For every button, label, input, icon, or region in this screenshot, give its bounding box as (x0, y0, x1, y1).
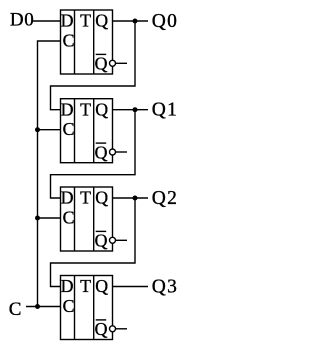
wire U4 Qbar stub (116, 328, 128, 330)
wire U1 Qbar stub (116, 62, 128, 64)
svg-text:Q: Q (95, 142, 108, 162)
wire U2 Qbar stub (116, 151, 128, 153)
wire clock branch to U3 pin C (38, 217, 61, 219)
svg-text:Q: Q (95, 11, 108, 31)
D flip-flop U2 (61, 99, 113, 163)
svg-text:T: T (80, 188, 91, 208)
svg-text:D0: D0 (10, 10, 34, 31)
svg-text:Q1: Q1 (152, 100, 178, 121)
svg-text:Q: Q (95, 188, 108, 208)
inverter bubble on U1 pin Qbar (110, 60, 116, 66)
wire Q0 to U2 pin D (51, 21, 136, 110)
svg-text:D: D (61, 188, 74, 208)
inverter bubble on U4 pin Qbar (110, 326, 116, 332)
svg-text:Q2: Q2 (152, 188, 178, 209)
svg-text:D: D (61, 276, 74, 296)
junction clock at U2 C (35, 127, 40, 132)
svg-text:Q: Q (95, 99, 108, 119)
junction clock at U4 C (35, 304, 40, 309)
wire U1 Q output (113, 20, 149, 22)
inverter bubble on U2 pin Qbar (110, 149, 116, 155)
D flip-flop U1 (61, 10, 113, 74)
wire clock branch to U2 pin C (38, 129, 61, 131)
svg-text:C: C (63, 296, 75, 316)
D flip-flop U3 (61, 187, 113, 251)
inverter bubble on U3 pin Qbar (110, 237, 116, 243)
D flip-flop U4 (61, 276, 113, 340)
svg-text:Q: Q (95, 54, 108, 74)
wire clock vertical bus (38, 41, 61, 307)
svg-text:Q: Q (95, 319, 108, 339)
junction Q1 feedback tap (133, 107, 138, 112)
svg-text:T: T (80, 11, 91, 31)
svg-text:T: T (80, 99, 91, 119)
svg-text:Q: Q (95, 231, 108, 251)
wire C to U4 pin C (26, 306, 61, 308)
svg-text:Q3: Q3 (152, 277, 178, 298)
svg-text:C: C (63, 207, 75, 227)
wire D0 to U1 pin D (32, 20, 61, 22)
wire Q1 to U3 pin D (51, 110, 136, 198)
wire U3 Qbar stub (116, 239, 128, 241)
junction Q0 feedback tap (133, 19, 138, 24)
svg-text:D: D (61, 99, 74, 119)
junction Q2 feedback tap (133, 196, 138, 201)
svg-text:T: T (80, 276, 91, 296)
wire U3 Q output (113, 197, 149, 199)
wire U4 Q output (113, 286, 149, 288)
svg-text:Q0: Q0 (152, 11, 178, 32)
wire Q2 to U4 pin D (51, 198, 136, 287)
svg-text:Q: Q (95, 276, 108, 296)
svg-text:C: C (63, 30, 75, 50)
svg-text:D: D (61, 11, 74, 31)
junction clock at U3 C (35, 216, 40, 221)
wire U2 Q output (113, 109, 149, 111)
svg-text:C: C (9, 299, 22, 320)
svg-text:C: C (63, 119, 75, 139)
